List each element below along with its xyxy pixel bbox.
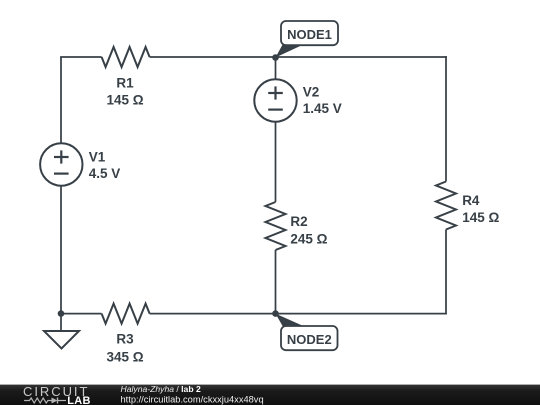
node label NODE2: [281, 326, 338, 350]
wire right vertical top: [445, 56, 447, 181]
svg-text:R1: R1: [116, 76, 134, 91]
svg-text:R2: R2: [290, 214, 307, 229]
callout pointer NODE1: [276, 44, 306, 58]
label R4 value: [462, 210, 499, 225]
wire right vertical bottom: [445, 230, 447, 315]
svg-text:NODE1: NODE1: [287, 27, 332, 42]
svg-text:1.45 V: 1.45 V: [303, 101, 342, 116]
resistor R3: [102, 304, 150, 324]
node NODE1 junction dot: [272, 54, 279, 61]
wire V2 to R2: [275, 122, 277, 202]
label V2: [303, 85, 320, 100]
label R3 value: [106, 350, 143, 365]
callout pointer NODE2: [276, 314, 306, 327]
node label NODE1: [281, 21, 338, 45]
svg-text:V2: V2: [303, 85, 320, 100]
label R1 value: [106, 93, 143, 108]
svg-text:http://circuitlab.com/ckxxju4x: http://circuitlab.com/ckxxju4xx48vq: [121, 394, 264, 404]
voltage source V2: [254, 79, 296, 121]
voltage source V1: [40, 143, 82, 185]
node NODE2 junction dot: [272, 310, 279, 317]
label R2: [290, 214, 307, 229]
label R2 value: [290, 232, 327, 247]
svg-text:LAB: LAB: [67, 395, 91, 405]
wire top segment right: [150, 56, 447, 58]
svg-text:V1: V1: [89, 150, 106, 165]
wire left vertical top: [60, 57, 62, 144]
wire V2 stem top: [275, 58, 277, 80]
svg-text:145 Ω: 145 Ω: [106, 93, 143, 108]
svg-text:R4: R4: [462, 193, 480, 208]
label R1: [116, 76, 134, 91]
label V1 value: [89, 166, 121, 181]
resistor R4: [436, 182, 456, 230]
svg-text:R3: R3: [116, 331, 134, 346]
svg-text:345 Ω: 345 Ω: [106, 350, 143, 365]
ground: [44, 314, 79, 349]
label V2 value: [303, 101, 342, 116]
svg-text:NODE2: NODE2: [287, 332, 332, 347]
label V1: [89, 150, 106, 165]
wire top segment left: [60, 56, 102, 58]
svg-text:Halyna-Zhyha / lab 2: Halyna-Zhyha / lab 2: [121, 384, 201, 394]
label R4: [462, 193, 480, 208]
wire left vertical bottom: [60, 186, 62, 314]
footer title text: [121, 384, 201, 394]
footer bar: [0, 385, 540, 405]
junction dot at ground: [58, 310, 65, 317]
svg-text:245 Ω: 245 Ω: [290, 232, 327, 247]
resistor R2: [266, 202, 286, 250]
logo CircuitLab: [23, 384, 91, 405]
wire bottom segment right: [150, 313, 447, 315]
wire bottom segment left: [61, 313, 102, 315]
footer url text: [121, 394, 264, 404]
wire R2 to NODE2: [275, 250, 277, 314]
resistor R1: [102, 47, 150, 67]
svg-text:145 Ω: 145 Ω: [462, 210, 499, 225]
label R3: [116, 331, 134, 346]
svg-text:4.5 V: 4.5 V: [89, 166, 121, 181]
